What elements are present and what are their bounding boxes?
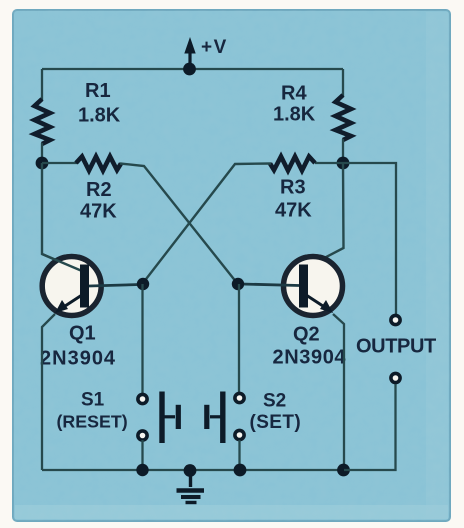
svg-text:S2: S2 xyxy=(263,391,286,412)
wire left rail (top to node A) xyxy=(41,69,43,100)
resistor R2 xyxy=(42,162,77,164)
transistor Q2 xyxy=(241,257,343,316)
svg-text:R4: R4 xyxy=(281,83,307,105)
svg-text:OUTPUT: OUTPUT xyxy=(356,336,436,358)
node Q1 base junction xyxy=(137,278,149,290)
svg-text:R3: R3 xyxy=(280,177,306,199)
wire R2 to Q2 base (cross coupling) xyxy=(120,164,237,284)
wire S1 to bottom rail xyxy=(141,440,143,470)
wire top rail right corner down xyxy=(342,69,344,96)
resistor R4 xyxy=(336,95,352,140)
svg-text:S1: S1 xyxy=(81,390,105,411)
svg-text:47K: 47K xyxy=(275,200,312,222)
svg-text:(RESET): (RESET) xyxy=(57,412,128,432)
resistor R3 xyxy=(315,162,343,164)
node A junction xyxy=(36,157,49,170)
wire Q1 emitter to left rail down xyxy=(42,314,55,470)
wire R1 bottom to node A xyxy=(41,143,43,163)
output terminal bottom xyxy=(391,373,400,382)
svg-text:R1: R1 xyxy=(85,80,111,102)
svg-text:1.8K: 1.8K xyxy=(273,104,316,126)
wire Q2 emitter down xyxy=(333,314,344,470)
wire R3 to Q1 base (cross coupling) xyxy=(143,164,271,284)
node S2 bottom junction xyxy=(234,464,247,477)
wire Q1 base to S1 xyxy=(141,284,143,394)
svg-text:R2: R2 xyxy=(86,179,112,201)
wire bottom rail xyxy=(42,469,343,471)
node B junction xyxy=(337,157,350,170)
transistor Q1 xyxy=(42,254,140,316)
resistor R1 xyxy=(35,99,51,144)
svg-text:+V: +V xyxy=(201,37,228,58)
wire node A down to Q1 collector xyxy=(42,163,81,271)
wire top rail xyxy=(42,68,343,70)
wire Q2 base to S2 xyxy=(238,284,240,393)
node emitter bottom junction xyxy=(337,464,350,477)
wire S2 to bottom rail xyxy=(238,440,240,470)
svg-text:2N3904: 2N3904 xyxy=(273,347,347,369)
wire node B down to Q2 collector xyxy=(305,163,344,268)
svg-text:1.8K: 1.8K xyxy=(78,105,121,127)
wire R4 bottom to node B xyxy=(342,139,344,163)
svg-text:Q2: Q2 xyxy=(293,324,320,346)
svg-text:Q1: Q1 xyxy=(69,323,96,345)
ground xyxy=(177,464,205,502)
node Q2 base junction xyxy=(232,278,244,290)
svg-text:2N3904: 2N3904 xyxy=(40,348,116,370)
output terminal top xyxy=(391,315,400,324)
node S1 bottom junction xyxy=(136,464,148,476)
wire output bottom to rail xyxy=(344,384,396,470)
wire node B to output rail xyxy=(343,163,396,314)
power +V xyxy=(183,37,196,75)
svg-text:(SET): (SET) xyxy=(250,412,302,433)
pushbutton S2 xyxy=(207,392,244,444)
svg-text:47K: 47K xyxy=(80,201,117,223)
pushbutton S1 xyxy=(138,392,178,444)
